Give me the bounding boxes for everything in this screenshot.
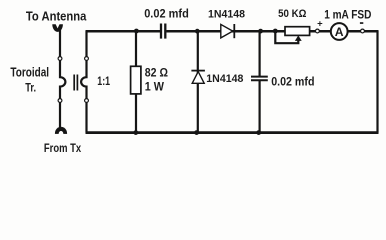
wire: R1 branch vertical <box>135 31 137 133</box>
potentiometer VR1 50 Kohm body <box>285 27 310 36</box>
resistor R1 82 ohm body <box>131 66 141 94</box>
transformer secondary top terminal <box>85 57 89 61</box>
antenna connector (To Antenna terminal) <box>52 24 63 32</box>
wire: top horizontal bus from transformer to C1 <box>86 30 161 33</box>
svg-text:Toroidal: Toroidal <box>10 65 49 79</box>
svg-text:1 W: 1 W <box>145 80 165 94</box>
diode D2 shunt triangle (pointing up) <box>192 72 204 84</box>
transformer T1 core bars <box>73 75 75 91</box>
diode D1 1N4148 series triangle <box>221 24 233 38</box>
label: minus polarity <box>360 22 363 24</box>
From Tx connector (bottom dome terminal) <box>55 127 67 134</box>
svg-text:82 Ω: 82 Ω <box>145 65 168 79</box>
diode D2 1N4148 shunt cathode bar <box>191 70 205 72</box>
wire: right vertical drop <box>376 31 378 133</box>
svg-text:0.02 mfd: 0.02 mfd <box>144 6 189 20</box>
svg-text:1N4148: 1N4148 <box>206 73 243 85</box>
svg-text:A: A <box>335 25 344 39</box>
node: junction dot at potentiometer wiper link <box>273 29 278 34</box>
svg-text:0.02 mfd: 0.02 mfd <box>271 74 314 88</box>
meter M1 1 mA ammeter circle <box>331 23 348 40</box>
wire: wiper link down and across <box>275 31 298 43</box>
meter - terminal <box>361 29 365 33</box>
wire: C2 branch vertical lower <box>259 81 261 133</box>
diode D1 cathode bar <box>233 24 235 38</box>
svg-text:1 mA FSD: 1 mA FSD <box>324 7 371 21</box>
wire: D2 branch vertical <box>197 31 199 133</box>
node: junction dot bottom of R1 branch <box>133 130 138 135</box>
svg-text:1N4148: 1N4148 <box>208 9 245 21</box>
capacitor C1 0.02 mfd left plate <box>160 24 162 39</box>
capacitor C2 0.02 mfd bottom plate <box>251 79 268 81</box>
capacitor C1 0.02 mfd right plate <box>164 24 166 39</box>
svg-text:Tr.: Tr. <box>25 80 36 94</box>
node: junction dot bottom of C2 branch <box>256 130 261 135</box>
transformer T1 secondary (right winding) wire with loop <box>81 31 86 133</box>
transformer T1 primary (left winding) wire with loop <box>60 29 65 129</box>
svg-text:From Tx: From Tx <box>44 141 81 155</box>
transformer secondary bottom terminal <box>85 99 89 103</box>
node: junction dot top of D2 branch <box>195 29 200 34</box>
svg-text:50 KΩ: 50 KΩ <box>278 8 306 20</box>
svg-text:+: + <box>317 19 323 30</box>
node: junction dot top of C2 branch <box>258 29 263 34</box>
wire: top horizontal bus from C1 to right corner <box>166 30 378 33</box>
wire: C2 branch vertical upper <box>259 31 261 76</box>
transformer primary top terminal <box>58 57 62 61</box>
capacitor C2 0.02 mfd top plate <box>251 76 268 78</box>
transformer primary bottom terminal <box>58 99 62 103</box>
wire: bottom ground bus <box>86 131 379 134</box>
meter + terminal <box>316 29 320 33</box>
potentiometer wiper arrowhead <box>295 35 302 41</box>
svg-text:To Antenna: To Antenna <box>26 8 87 23</box>
node: junction dot bottom of D2 branch <box>194 130 199 135</box>
node: junction dot top of R1 branch <box>134 29 139 34</box>
svg-text:1:1: 1:1 <box>97 76 110 88</box>
